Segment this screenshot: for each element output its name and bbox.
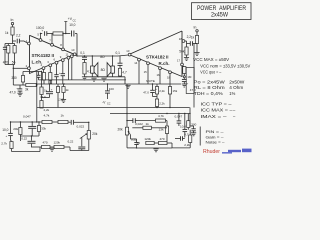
- svg-text:Noise = –: Noise = –: [206, 139, 226, 144]
- wire pin6 down: [56, 64, 58, 74]
- ground L bottom: [49, 147, 54, 149]
- wire bias top: [5, 43, 15, 45]
- svg-text:4,7k: 4,7k: [158, 114, 164, 118]
- svg-text:+: +: [42, 29, 44, 33]
- wire pin3 down: [49, 67, 51, 73]
- pin 10 L output: [73, 53, 76, 56]
- svg-text:STK4182 II: STK4182 II: [146, 55, 169, 60]
- ground mid rail: [125, 84, 130, 86]
- capacitor 0,047 L wide: [31, 122, 33, 126]
- wire mid rail upper: [37, 83, 181, 85]
- ground zobel L: [82, 76, 87, 78]
- pin 4 L: [42, 67, 45, 70]
- svg-text:120k: 120k: [144, 137, 151, 141]
- resistor fb2 L: [40, 101, 43, 109]
- pin 5 L: [39, 39, 42, 42]
- svg-text:2,2k: 2,2k: [184, 143, 190, 147]
- svg-text:20k: 20k: [92, 132, 98, 136]
- pin 8 L: [62, 48, 65, 51]
- svg-text:14: 14: [134, 61, 138, 65]
- svg-text:16: 16: [157, 73, 161, 77]
- capacitor zobel L: [82, 56, 87, 58]
- capacitor pin9 L electrolytic: [61, 73, 65, 75]
- wire R net top rail: [110, 113, 190, 115]
- capacitor 4,7 R: [180, 136, 182, 140]
- capacitor input bias L: [3, 46, 7, 48]
- speaker L: [91, 56, 93, 66]
- capacitor 10,0 bootstrap: [71, 31, 73, 37]
- pin 6 L: [55, 61, 58, 64]
- wire zobel L drop: [84, 56, 86, 57]
- ground speaker L: [91, 77, 96, 79]
- svg-text:2x50W: 2x50W: [229, 80, 244, 85]
- svg-text:STK4182 II: STK4182 II: [32, 53, 55, 58]
- wire L output: [75, 55, 78, 57]
- wire L bottom rail: [12, 151, 41, 153]
- wire -Vcc drop: [107, 84, 109, 91]
- wire pin9 down: [62, 62, 64, 74]
- capacitor pin6 L: [54, 74, 58, 76]
- pin 3 L: [49, 64, 52, 67]
- svg-text:TDH = 0,4%: TDH = 0,4%: [194, 91, 223, 96]
- svg-text:120k: 120k: [54, 140, 61, 144]
- capacitor 47,0 NF R: [150, 89, 155, 91]
- svg-text:56k: 56k: [179, 50, 185, 54]
- svg-text:4,7: 4,7: [184, 132, 189, 136]
- resistor 300 R: [187, 121, 190, 128]
- wire pot wiper L: [81, 137, 83, 146]
- resistor 56 L bias: [13, 46, 16, 54]
- resistor 20k L bottom: [19, 128, 22, 135]
- ground 56k: [186, 55, 188, 58]
- svg-text:2,2k: 2,2k: [159, 89, 165, 93]
- wire pin15 down: [147, 65, 149, 84]
- junction dots: [32, 121, 33, 122]
- pin 18 R: [182, 40, 185, 43]
- capacitor 0,047 R: [177, 120, 182, 122]
- pin 2 L: [28, 67, 31, 70]
- resistor 3k L feedback: [26, 83, 36, 86]
- wire R net bottom link: [127, 147, 137, 149]
- wire R tone top: [135, 120, 155, 122]
- wire rail left: [41, 33, 43, 35]
- svg-text:33k: 33k: [41, 127, 46, 131]
- svg-text:R.ch.: R.ch.: [159, 61, 170, 66]
- svg-text:47,0: 47,0: [10, 91, 16, 95]
- resistor 330 L: [21, 76, 24, 83]
- svg-text:Rhuder: Rhuder: [203, 149, 220, 155]
- volume pot 20k R: [125, 127, 128, 135]
- resistor 120k L bottom: [54, 145, 64, 148]
- svg-text:15k: 15k: [173, 89, 178, 93]
- small box between rails: [49, 80, 52, 83]
- pin 17 R: [181, 63, 184, 66]
- resistor pin4 L: [42, 73, 45, 81]
- pin 12 R: [169, 71, 172, 74]
- svg-text:10,0: 10,0: [69, 23, 75, 27]
- pin 15 R: [147, 62, 150, 65]
- capacitor 0,022 R: [132, 118, 134, 123]
- wire R bottom: [137, 147, 173, 149]
- wire bias bottom: [7, 53, 9, 65]
- svg-text:0,022: 0,022: [135, 122, 143, 126]
- svg-text:2,2: 2,2: [16, 34, 21, 38]
- wire speakers bottom: [91, 73, 93, 77]
- resistor fb1 L: [40, 87, 43, 95]
- resistor 13k R: [165, 126, 168, 134]
- svg-text:0,1: 0,1: [80, 51, 85, 55]
- resistor 120k R: [146, 141, 154, 144]
- wire R right col: [189, 108, 191, 127]
- svg-text:1k: 1k: [191, 35, 195, 39]
- wire rail mid: [63, 33, 70, 35]
- svg-text:8Ω: 8Ω: [101, 68, 106, 72]
- spec block bracket: [199, 127, 201, 146]
- capacitor small NF L: [37, 74, 41, 76]
- capacitor 100 -Vcc: [105, 90, 110, 92]
- wire NF R join: [153, 96, 158, 98]
- svg-text:10: 10: [71, 48, 75, 52]
- svg-text:2,7k: 2,7k: [1, 142, 7, 146]
- resistor 2,2k NF R b: [155, 99, 158, 107]
- resistor 1k R input: [195, 36, 198, 44]
- svg-text:CC: CC: [107, 103, 111, 106]
- node pin17 junction: [183, 76, 185, 78]
- svg-text:470: 470: [43, 140, 48, 144]
- svg-text:+: +: [6, 134, 8, 138]
- svg-text:15: 15: [144, 70, 148, 74]
- svg-text:In: In: [194, 26, 197, 30]
- watermark blue marks: [222, 152, 232, 154]
- wire pin12 down: [169, 74, 171, 84]
- capacitor 47,0 L feedback: [18, 88, 23, 90]
- wire pot R bottom: [126, 135, 128, 148]
- pin 13 R output: [128, 53, 131, 56]
- capacitor zobel R: [118, 62, 123, 64]
- resistor 15k NF R: [168, 87, 171, 95]
- svg-text:13: 13: [126, 49, 130, 53]
- svg-text:56: 56: [12, 60, 16, 64]
- svg-text:3k: 3k: [25, 88, 29, 92]
- svg-text:1k: 1k: [61, 114, 65, 118]
- wire pin14 down: [138, 61, 140, 84]
- wire pin12 down: [71, 58, 73, 80]
- wire pin16 down: [159, 70, 161, 84]
- svg-text:17: 17: [177, 59, 181, 63]
- svg-text:In: In: [11, 18, 14, 22]
- +Vcc supply: [65, 22, 67, 34]
- capacitor 47,0 ripple R: [182, 78, 187, 80]
- resistor 33k L tone: [37, 126, 40, 132]
- svg-text:+: +: [16, 86, 18, 90]
- pin 16 R: [159, 67, 162, 70]
- ground right col R: [191, 132, 196, 134]
- wire L mid link: [20, 135, 39, 137]
- svg-text:1k: 1k: [146, 122, 150, 126]
- capacitor 10,0 L bottom: [8, 132, 13, 134]
- wire cap to pin18: [193, 43, 198, 45]
- ground R input: [194, 52, 199, 54]
- op-amp STK4182 L.ch triangle: [30, 35, 75, 73]
- svg-text:18: 18: [179, 37, 183, 41]
- svg-text:V​CC nom = ±33,5V ±30,5V: V​CC nom = ±33,5V ±30,5V: [200, 64, 250, 69]
- resistor 470 R: [159, 141, 168, 144]
- resistor 2,7k L corner: [10, 142, 13, 149]
- wire bootstrap riser: [76, 34, 78, 57]
- wire rail right: [75, 33, 77, 35]
- svg-text:I​CC MAX = –: I​CC MAX = –: [201, 108, 234, 113]
- ground ripple R: [182, 83, 187, 85]
- wire pin2 left: [13, 67, 28, 69]
- wire input node L: [12, 35, 14, 41]
- svg-text:R​L = 8 Ohm: R​L = 8 Ohm: [194, 85, 226, 90]
- capacitor 2,2 R input: [189, 41, 191, 46]
- resistor 4,7 zobel L: [83, 63, 86, 75]
- volume pot 20k L: [87, 131, 90, 140]
- capacitor 0,22 R: [134, 142, 138, 144]
- svg-text:0,1: 0,1: [116, 51, 121, 55]
- svg-text:V​CC quo = –: V​CC quo = –: [200, 70, 222, 75]
- wire tone L main: [11, 121, 43, 123]
- svg-text:V​CC MAX = ±50V: V​CC MAX = ±50V: [193, 57, 229, 62]
- svg-text:POWER AMPLIFIER: POWER AMPLIFIER: [197, 5, 246, 12]
- pin 11 L: [67, 56, 70, 59]
- wire L bottom right: [31, 146, 42, 148]
- svg-text:470: 470: [160, 137, 165, 141]
- pin 14 R: [138, 58, 141, 61]
- svg-text:0,22: 0,22: [21, 137, 27, 141]
- svg-text:8Ω: 8Ω: [100, 55, 105, 59]
- ground speakers: [101, 77, 106, 79]
- svg-text:20k: 20k: [118, 128, 124, 132]
- wire pin17 down: [181, 65, 183, 68]
- svg-text:1M: 1M: [187, 75, 192, 79]
- svg-text:11: 11: [66, 53, 69, 57]
- resistor 1k R tone: [143, 126, 152, 129]
- wire R input down: [196, 44, 198, 53]
- capacitor 0,022 L: [70, 120, 72, 125]
- capacitor 0,22 L pot: [78, 146, 85, 148]
- wire pin11 down: [68, 59, 70, 80]
- svg-text:0,022: 0,022: [77, 125, 85, 129]
- wire 4,7k R: [166, 120, 168, 122]
- resistor mid a: [56, 87, 59, 93]
- svg-text:I​CC TYP = –: I​CC TYP = –: [201, 102, 233, 107]
- svg-text:330: 330: [11, 76, 17, 80]
- op-amp STK4182 R.ch triangle: [129, 31, 182, 77]
- speaker R: [112, 56, 114, 66]
- wire NF R vertical: [193, 44, 195, 108]
- wire pin13 output: [118, 55, 128, 56]
- wire riser pin5: [40, 34, 42, 39]
- svg-text:1k: 1k: [66, 88, 70, 92]
- wire mid rail second: [39, 79, 127, 81]
- svg-text:10,0: 10,0: [180, 124, 186, 128]
- svg-text:4,7: 4,7: [122, 71, 127, 75]
- wire R corner bottom: [172, 147, 190, 149]
- svg-text:2x45W: 2x45W: [211, 12, 228, 18]
- wire R tone mid: [132, 127, 143, 129]
- svg-text:+: +: [59, 71, 61, 75]
- capacitor 2,2 L input: [16, 39, 18, 44]
- wire riser pin7: [51, 34, 53, 44]
- resistor 4,7 zobel R: [118, 68, 121, 76]
- wire NF upper rail: [23, 71, 42, 73]
- resistor rail L: [53, 32, 63, 35]
- pin 9 L: [61, 59, 64, 62]
- wire riser pin8: [62, 34, 64, 49]
- wire pin4 down: [43, 70, 45, 73]
- pin 7 L: [51, 43, 54, 46]
- capacitor 100,0 bootstrap: [44, 31, 46, 36]
- resistor 4,7k R: [156, 119, 166, 122]
- ground 47,0: [17, 92, 22, 94]
- svg-text:1k: 1k: [5, 31, 9, 35]
- svg-text:47,0: 47,0: [143, 90, 149, 94]
- wire pot bottom L: [88, 139, 90, 151]
- pin 1 L: [28, 42, 31, 45]
- wire zobel R drop: [119, 56, 121, 63]
- resistor pin3 L: [49, 73, 52, 81]
- svg-text:100: 100: [109, 87, 114, 91]
- resistor 2,2k NF R a: [155, 87, 158, 95]
- svg-text:0,047: 0,047: [23, 114, 31, 118]
- svg-text:12,2: 12,2: [58, 97, 64, 101]
- resistor 1k L tone: [58, 120, 68, 123]
- svg-text:I​MAX = –: I​MAX = –: [201, 114, 228, 119]
- wire fb vertical: [36, 85, 38, 122]
- svg-text:CC: CC: [73, 20, 77, 22]
- svg-text:4 Ohm: 4 Ohm: [229, 85, 244, 90]
- svg-text:20k: 20k: [13, 127, 18, 131]
- svg-text:470: 470: [3, 60, 9, 64]
- svg-text:1%: 1%: [229, 91, 235, 96]
- pin 12 L: [70, 55, 73, 58]
- capacitor 10,0 R: [183, 128, 188, 130]
- resistor pin17 ripple: [183, 67, 186, 74]
- wire pot R top: [126, 84, 128, 127]
- ground R bottom: [153, 148, 158, 150]
- ground mid b: [61, 99, 66, 101]
- capacitor right col R: [190, 125, 194, 127]
- svg-text:0,22: 0,22: [68, 140, 74, 144]
- svg-text:2,2k: 2,2k: [159, 101, 165, 105]
- resistor 2,2k R corner: [189, 135, 192, 143]
- ripple filter box R: [186, 68, 194, 94]
- node bias junction: [12, 41, 14, 44]
- resistor 56k R bias: [185, 47, 188, 55]
- svg-text:2,2: 2,2: [187, 35, 192, 39]
- svg-text:Po = 2x45W: Po = 2x45W: [194, 80, 225, 85]
- wire rail: [47, 33, 53, 35]
- resistor 470 L bottom: [42, 145, 51, 148]
- resistor 470 L bias: [7, 46, 10, 54]
- capacitor 47,0 NF L: [49, 84, 51, 91]
- wire cap to pin1: [20, 40, 25, 42]
- svg-text:MUTE: MUTE: [146, 79, 155, 83]
- svg-text:2,2k: 2,2k: [44, 108, 50, 112]
- wire pin2 net horizontal: [13, 84, 25, 86]
- svg-text:10,0: 10,0: [2, 128, 8, 132]
- resistor mid b: [62, 87, 65, 93]
- wire mid rail lower: [37, 107, 190, 109]
- resistor 4,7k L: [42, 120, 52, 123]
- svg-text:4,7k: 4,7k: [44, 114, 50, 118]
- resistor 1k L input: [11, 27, 14, 35]
- title box: [192, 3, 252, 20]
- capacitor 0,22 L corner: [28, 140, 36, 142]
